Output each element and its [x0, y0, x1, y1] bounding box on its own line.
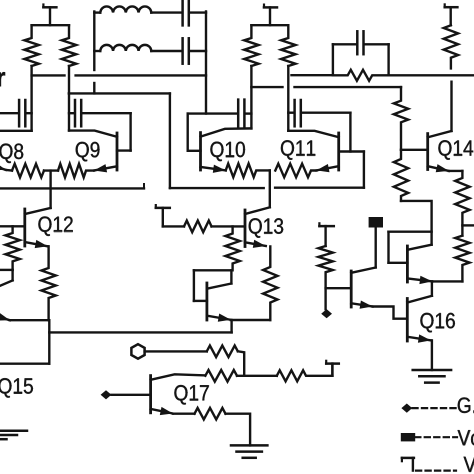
transistor Q11 base lead	[339, 150, 364, 152]
label Q17	[174, 385, 208, 405]
wire Q10 base riser	[186, 114, 188, 151]
bias bus left segment	[0, 184, 144, 188]
transistor Qm2 bar	[406, 246, 409, 282]
hexagon input marker	[131, 344, 144, 359]
wire Q15 emitter riser	[48, 320, 50, 364]
wire node D right segment	[295, 86, 402, 88]
capacitor C Q10 feedback	[238, 100, 244, 127]
wire diamond to Q17 base	[111, 394, 150, 396]
transistor Q12 emitter arrow	[25, 240, 48, 248]
wire collector chain	[237, 375, 277, 377]
LC left vertical lower	[93, 83, 95, 93]
resistor R emitter Q11	[275, 164, 316, 178]
resistor R chain to tap	[277, 370, 333, 381]
transistor Qm0 bar	[205, 283, 208, 320]
wire Q16 emitter to ground	[431, 340, 433, 370]
legend label Vc	[458, 430, 474, 445]
ground (Q17)	[231, 445, 267, 457]
wire Q14 base	[401, 149, 428, 151]
wire chain to Qm2 collector	[401, 201, 432, 245]
transistor Q10 base lead	[188, 150, 201, 152]
resistor R base Q12	[5, 226, 19, 270]
wire LC-C riser	[169, 93, 171, 188]
label Q10	[210, 142, 245, 162]
wire Qm0 emitter to node	[231, 319, 270, 321]
transistor Q14 emitter arrow	[428, 164, 449, 172]
wire Q17 emitter	[173, 413, 195, 415]
label Q8	[0, 144, 23, 164]
wire to Q16 collector node	[433, 280, 462, 282]
power tap VCC (right pair)	[264, 5, 277, 26]
transistor Qm0 collector lead	[207, 284, 232, 289]
wire Qm1 emitter jog	[373, 307, 408, 319]
resistor R emitter Q9	[58, 164, 94, 178]
wire block left vertical	[332, 44, 334, 75]
wire node AB right segment	[76, 74, 206, 76]
wire mirror base lead	[194, 300, 207, 302]
legend label G	[458, 397, 474, 413]
wire L2 to C2	[151, 50, 181, 52]
cropped label r	[0, 72, 5, 86]
ground (Q16)	[413, 370, 451, 383]
wire tap right stub	[462, 224, 474, 226]
wire mirror base top	[194, 269, 232, 271]
wire node AB left segment	[32, 74, 65, 76]
inductor L1	[100, 6, 151, 12]
lead collector riser Q10 load	[250, 66, 252, 128]
transistor Q13 emitter arrow	[245, 240, 266, 248]
label Q14	[438, 140, 473, 160]
transistor Q8 emitter arrow	[0, 162, 12, 170]
wire cap block right	[365, 43, 389, 45]
transistor Q14 bar	[426, 134, 429, 170]
resistor R emitter Q8	[12, 164, 44, 178]
resistor R load Q9	[62, 25, 76, 66]
wire mirror collector riser	[230, 270, 232, 283]
label Q11	[281, 140, 315, 160]
power tap VCC (right edge)	[445, 4, 458, 25]
wire Q16 collector riser	[431, 281, 433, 295]
legend dashed line 1	[412, 407, 457, 409]
transistor Q16 collector lead	[407, 296, 432, 303]
resistor R base-emitter Q13	[225, 226, 239, 270]
wire Q14 collector riser	[450, 82, 452, 131]
resistor R collector Q17	[205, 370, 237, 382]
wire square stem	[375, 228, 377, 268]
wire B to block	[292, 74, 333, 76]
lead collector riser Q9 load	[68, 66, 70, 131]
wire hexagon to resistor	[145, 350, 207, 352]
wire hex res corner	[238, 351, 244, 376]
resistor R emitter Q14 lower	[455, 236, 469, 282]
wire Q9 base riser	[129, 113, 131, 150]
input diamond GA	[321, 309, 332, 318]
LC right vertical	[205, 12, 207, 114]
capacitor C Q9 feedback	[75, 100, 81, 126]
transistor Q17 collector lead	[151, 374, 206, 380]
transistor Qm0 emitter arrow	[207, 314, 231, 322]
wire Qm2 diode loop top	[389, 230, 432, 232]
wire Q9 collector	[69, 131, 117, 137]
legend dashed line 2	[415, 436, 457, 438]
resistor R chain lower	[394, 150, 408, 201]
transistor Q13 bar	[244, 210, 247, 247]
wire cap block left	[333, 43, 356, 45]
resistor R chain upper	[394, 87, 408, 150]
legend label V	[464, 457, 474, 472]
wire Q15 bottom left	[0, 363, 49, 365]
legend square	[401, 433, 415, 441]
wire Q8 collector	[0, 130, 32, 132]
resistor R load Q11	[281, 25, 295, 66]
resistor R load Q10	[244, 25, 258, 66]
resistor R base Q13	[184, 221, 212, 233]
wire cap Q8 left	[0, 112, 18, 114]
transistor Q13 collector lead	[245, 207, 270, 214]
wire top rail right pair	[251, 24, 288, 26]
resistor R load Q8	[24, 25, 38, 66]
label Q12	[38, 216, 72, 236]
lead collector riser Q11 load	[287, 66, 289, 131]
resistor R emitter Q17	[195, 408, 226, 420]
wire C1 to right	[190, 11, 206, 13]
transistor Q11 emitter arrow	[316, 164, 338, 172]
transistor Q10 bar	[199, 133, 202, 170]
wire emitter common node	[44, 169, 58, 171]
transistor Q17 emitter arrow	[151, 407, 173, 415]
transistor Qm1 collector lead	[351, 268, 376, 273]
wire Qm2 diode loop riser	[387, 232, 389, 263]
transistor Qm1 bar	[350, 271, 353, 307]
wire line C	[69, 92, 170, 94]
inductor L2	[100, 45, 151, 51]
transistor Q15 emitter arrow	[0, 313, 10, 321]
wire top rail left pair	[32, 24, 69, 26]
wire mirror base left riser	[193, 270, 195, 301]
wire cap Q11 left	[288, 111, 293, 113]
label Q15	[0, 378, 33, 398]
transistor Q17 bar	[149, 376, 152, 413]
capacitor C Q8 feedback	[19, 100, 25, 126]
resistor R block	[333, 70, 389, 81]
wire Q11 collector	[288, 131, 338, 137]
wire cap Q9 right	[82, 112, 130, 114]
label Q16	[420, 313, 454, 333]
wire block right vertical	[387, 44, 389, 75]
transistor Q11 bar	[337, 133, 340, 170]
resistor R GA chain	[318, 246, 332, 309]
transistor Q16 bar	[406, 299, 409, 342]
transistor Q16 emitter arrow	[407, 334, 431, 342]
wire block to right edge	[389, 74, 474, 76]
wire Q15 emitter	[10, 319, 50, 321]
resistor R emitter Q14 upper	[455, 171, 469, 236]
input diamond Q17	[101, 390, 112, 399]
transistor Q12 collector lead	[25, 208, 51, 214]
wire cap Q10 right	[246, 112, 251, 114]
wire base res to Q13	[212, 225, 245, 227]
wire cap Q11 right	[302, 111, 350, 113]
wire Q12 base res bottom left	[0, 269, 13, 271]
capacitor C Q11 feedback	[295, 100, 301, 126]
transistor Q14 collector lead	[428, 131, 452, 137]
transistor Q9 emitter arrow	[94, 164, 117, 172]
ground (bottom left, cropped)	[0, 431, 27, 439]
bias tap Q13 base	[156, 205, 170, 226]
LC left vertical upper	[93, 12, 95, 71]
resistor R hexagon	[207, 346, 238, 358]
wire common node down	[49, 171, 51, 208]
wire riser to tap	[331, 364, 333, 376]
lead / collector riser Q8 load	[30, 66, 32, 131]
wire cap Q9 left	[69, 112, 74, 114]
wire node riser to line E	[230, 320, 232, 332]
transistor Q12 bar	[23, 209, 26, 246]
wire tap to resistor	[163, 225, 184, 227]
power tap mid-bottom	[326, 361, 339, 376]
capacitor C block	[357, 31, 363, 54]
bias bus mid segment	[170, 187, 264, 189]
transistor Q9 bar	[116, 133, 119, 170]
transistor Qm2 emitter arrow	[407, 276, 432, 284]
wire bottom branch left	[94, 50, 100, 52]
bias bus right segment	[275, 186, 364, 188]
wire Q12 base	[0, 225, 25, 227]
transistor Q10 collector lead	[201, 128, 252, 136]
capacitor C2 (series bottom branch)	[183, 38, 189, 63]
wire cap Q8 right	[27, 112, 32, 114]
wire Q10 base line	[188, 112, 237, 114]
wire node D left segment	[251, 86, 282, 88]
wire Qm1 base lead	[326, 287, 352, 289]
wire Q14 emitter	[449, 170, 463, 172]
resistor R emitter Q10	[226, 164, 270, 178]
legend diamond	[401, 404, 412, 413]
transistor Qm1 emitter arrow	[351, 301, 372, 309]
power tap VCC (left pair)	[43, 5, 56, 26]
wire Q13 collector riser	[269, 170, 271, 207]
bias tap GA chain	[319, 223, 333, 246]
wire L1 to C1	[151, 11, 181, 13]
resistor R emitter Q12	[41, 246, 55, 320]
resistor R emitter Q13	[263, 247, 277, 321]
transistor Qm2 collector lead	[407, 245, 431, 250]
wire Q11 base riser from cap	[349, 113, 351, 152]
capacitor C1 (series top branch)	[183, 0, 189, 25]
resistor R right edge	[444, 25, 458, 68]
legend dashed line 3	[416, 470, 456, 472]
wire Q11 base to bus	[363, 152, 365, 188]
transistor Q15 collector lead	[0, 280, 13, 285]
wire top branch left	[94, 11, 100, 13]
wire Qm2 base lead	[389, 262, 408, 264]
wire line E to Q13 node	[49, 331, 231, 333]
transistor Q10 emitter arrow	[201, 165, 226, 173]
label Q13	[249, 218, 283, 238]
wire C2 to right	[190, 50, 206, 52]
label Q9	[76, 142, 100, 162]
bias marker square (Vc)	[369, 217, 383, 228]
wire Q15 collector riser	[11, 270, 13, 281]
legend tap symbol	[402, 458, 414, 471]
wire emitter res to ground	[226, 414, 251, 446]
transistor Q9 base lead	[117, 149, 131, 151]
